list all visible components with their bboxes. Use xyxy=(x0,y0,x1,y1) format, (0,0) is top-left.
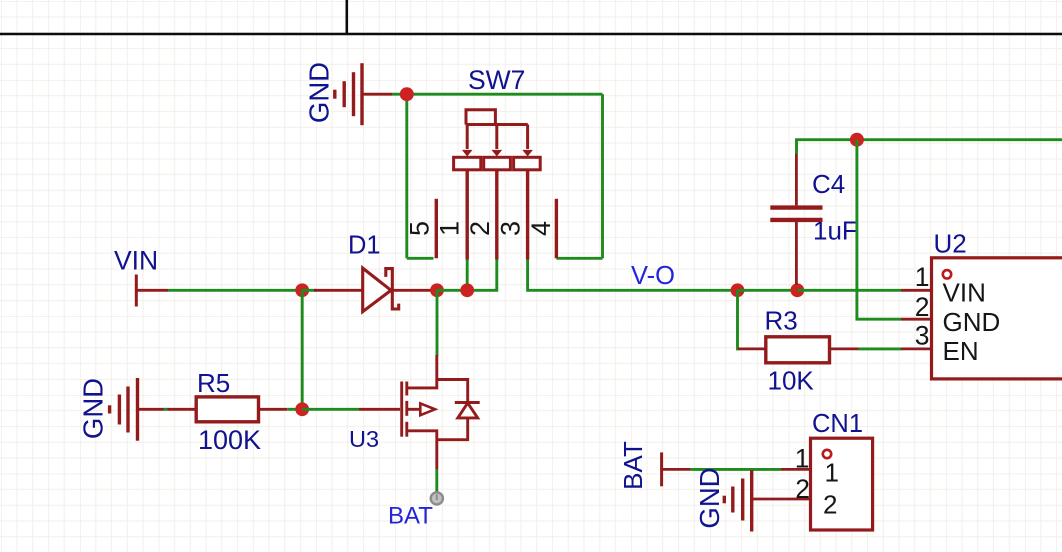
svg-text:2: 2 xyxy=(795,474,810,504)
U3 gate lead xyxy=(359,408,400,411)
svg-text:2: 2 xyxy=(823,490,837,520)
svg-text:VIN: VIN xyxy=(114,246,158,276)
wire GND junction to SW7 top right xyxy=(392,93,603,96)
SW7 pin 3 lead xyxy=(526,170,529,260)
wire SW7 pin3 to V-O run xyxy=(528,260,738,291)
R5 label xyxy=(197,368,230,398)
BAT port pin xyxy=(662,452,691,486)
R3 body xyxy=(766,337,830,363)
GND label (left) xyxy=(78,378,109,439)
ground GND (top, net GND) xyxy=(304,62,393,125)
svg-text:R5: R5 xyxy=(197,368,230,398)
svg-text:GND: GND xyxy=(304,62,335,123)
U3 body diode cathode bar xyxy=(455,401,480,404)
wire to SW7 pin 4 xyxy=(556,257,602,260)
diode D1 (Schottky) xyxy=(314,232,433,312)
svg-text:D1: D1 xyxy=(348,232,381,260)
U2 pin number 1 xyxy=(915,262,930,292)
wire SW7 right side down xyxy=(601,94,604,258)
svg-text:2: 2 xyxy=(465,221,495,236)
U3 source connection xyxy=(408,431,437,469)
D1 schottky cathode bar xyxy=(386,269,399,309)
U2 body xyxy=(932,258,1062,379)
junction R3 node xyxy=(731,283,745,297)
wire R3 node to C4 node xyxy=(738,289,798,292)
SW7 pin number 2 xyxy=(465,221,495,236)
net label V-O xyxy=(631,262,675,290)
U2 pin 3 lead xyxy=(901,347,932,350)
U2 pin number 2 xyxy=(915,292,930,322)
CN1 pin 2 lead xyxy=(752,498,811,501)
svg-text:4: 4 xyxy=(526,221,556,236)
U3 gate bar xyxy=(400,382,403,437)
wire C4 node to U2 VIN xyxy=(797,289,901,292)
svg-text:1: 1 xyxy=(435,221,465,236)
U3 drain connection xyxy=(408,355,437,388)
D1 anode lead xyxy=(314,289,362,292)
wire GND to R5 xyxy=(164,408,169,411)
C4 top plate xyxy=(770,205,822,209)
wire R3 to U2 EN xyxy=(859,347,902,350)
resistor R5 xyxy=(168,368,288,455)
wire top rail down to U2 GND xyxy=(857,140,901,320)
svg-text:BAT: BAT xyxy=(388,503,433,530)
junction R5 / U3 gate node xyxy=(295,402,309,416)
svg-text:V-O: V-O xyxy=(631,262,675,290)
CN1 label xyxy=(812,410,863,438)
VIN label xyxy=(114,246,158,276)
CN1 pin name 2 xyxy=(823,490,837,520)
R5 right lead xyxy=(259,408,288,411)
VIN port pin xyxy=(136,275,168,307)
svg-text:SW7: SW7 xyxy=(468,65,525,95)
SW7 pin number 4 xyxy=(526,221,556,236)
wire VIN to junction xyxy=(168,289,302,292)
R3 value 10K xyxy=(768,365,815,395)
U3 body arrow xyxy=(408,403,435,415)
junction C4 node xyxy=(790,283,804,297)
U2 pin 1 indicator xyxy=(943,270,951,278)
U2 pin number 3 xyxy=(915,321,930,351)
svg-text:5: 5 xyxy=(404,221,434,236)
GND label (top) xyxy=(304,62,335,123)
GND label (bottom) xyxy=(694,467,725,528)
svg-text:VIN: VIN xyxy=(943,278,986,308)
wire GND junction down left of SW7 xyxy=(405,94,408,258)
CN1 pin name 1 xyxy=(825,458,839,488)
svg-text:U2: U2 xyxy=(934,229,967,259)
SW7 pin 4 lead xyxy=(555,199,558,258)
U2 label xyxy=(934,229,967,259)
wire VIN node down to R5 node xyxy=(301,290,304,409)
svg-text:CN1: CN1 xyxy=(812,410,863,438)
SW7 contact box 2 xyxy=(484,157,511,170)
svg-text:100K: 100K xyxy=(198,425,261,455)
SW7 contact box 3 xyxy=(514,157,541,170)
wire SW7 pin1 down to node xyxy=(466,260,469,291)
svg-text:U3: U3 xyxy=(349,426,379,452)
wire junction to SW7 pin1 node and pin 2 xyxy=(437,260,497,291)
ground symbol bars (left) xyxy=(110,378,165,441)
junction D1 cathode / U3 drain xyxy=(430,283,444,297)
port VIN xyxy=(114,246,168,307)
U2 pin 1 lead xyxy=(901,289,932,292)
capacitor C4 xyxy=(770,153,858,285)
D1 triangle xyxy=(363,268,391,312)
svg-text:C4: C4 xyxy=(812,169,845,199)
C4 top lead xyxy=(795,153,798,205)
svg-text:3: 3 xyxy=(496,221,526,236)
C4 value 1uF xyxy=(813,215,858,245)
net label BAT xyxy=(388,503,433,530)
SW7 pin 5 lead xyxy=(435,199,438,258)
CN1 body xyxy=(811,438,873,530)
junction SW7 pin 1 node xyxy=(460,283,474,297)
resistor R3 xyxy=(738,290,859,395)
wire BAT to CN1 pin 1 xyxy=(690,468,781,471)
SW7 pin number 1 xyxy=(435,221,465,236)
port BAT (left of CN1) xyxy=(618,441,690,490)
U2 pin name VIN xyxy=(943,278,986,308)
svg-text:1: 1 xyxy=(915,262,930,292)
SW7 contact box 1 xyxy=(454,157,481,170)
D1 cathode lead xyxy=(392,289,433,292)
R5 body xyxy=(196,397,258,422)
U2 pin 2 lead xyxy=(901,318,932,321)
svg-text:GND: GND xyxy=(694,467,725,528)
IC U2 xyxy=(901,229,1062,379)
ground GND (bottom, at CN1) xyxy=(694,467,752,531)
svg-text:GND: GND xyxy=(78,378,109,439)
R5 value 100K xyxy=(198,425,261,455)
U2 pin name EN xyxy=(943,336,979,366)
C4 label xyxy=(812,169,845,199)
ground GND (left, at R5) xyxy=(78,378,165,441)
CN1 pin 1 indicator xyxy=(823,450,831,458)
junction VIN node xyxy=(295,283,309,297)
pin BAT (test point) xyxy=(431,492,443,504)
svg-text:10K: 10K xyxy=(768,365,815,395)
SW7 pin 2 lead xyxy=(495,170,498,260)
R3 left lead xyxy=(738,347,766,350)
U2 pin name GND xyxy=(943,307,1001,337)
R3 right lead xyxy=(830,347,859,350)
SW7 pin 1 lead xyxy=(466,170,469,260)
svg-text:EN: EN xyxy=(943,336,979,366)
CN1 pin number 1 (outside) xyxy=(795,444,810,474)
ground symbol bars (top) xyxy=(335,63,392,125)
wire R5 to gate node xyxy=(287,408,302,411)
svg-text:1: 1 xyxy=(795,444,810,474)
wire node down to U3 drain xyxy=(436,290,439,356)
wire VIN node to D1 anode xyxy=(302,289,316,292)
svg-text:R3: R3 xyxy=(765,305,798,335)
R5 left lead xyxy=(168,408,197,411)
SW7 label xyxy=(468,65,525,95)
ground symbol bars (bottom) xyxy=(724,470,751,531)
C4 bottom lead xyxy=(795,222,798,285)
R3 label xyxy=(765,305,798,335)
CN1 pin 1 lead xyxy=(781,468,811,471)
SW7 pin number 5 xyxy=(404,221,434,236)
wire R3 node down xyxy=(738,290,740,349)
CN1 pin number 2 (outside) xyxy=(795,474,810,504)
wire gate node to U3 xyxy=(302,408,359,411)
BAT label (rotated) xyxy=(618,441,648,490)
SW7 pin number 3 xyxy=(496,221,526,236)
switch SW7 xyxy=(404,65,556,260)
svg-text:GND: GND xyxy=(943,307,1001,337)
U3 body diode branch top xyxy=(437,380,468,403)
U3 body diode triangle xyxy=(458,403,478,418)
junction at GND / SW7 xyxy=(400,87,414,101)
D1 label xyxy=(348,232,381,260)
transistor U3 (MOSFET with body diode) xyxy=(349,355,480,469)
connector CN1 xyxy=(752,410,873,530)
U3 body diode branch bottom xyxy=(437,418,468,440)
svg-text:1: 1 xyxy=(825,458,839,488)
SW7 actuator bracket xyxy=(462,110,533,157)
wire to SW7 pin 5 xyxy=(407,257,434,260)
U3 channel dashes xyxy=(405,382,408,437)
wire C4 up to top rail xyxy=(797,140,1062,154)
C4 bottom plate xyxy=(770,218,822,222)
sheet frame top edge xyxy=(0,0,1062,34)
U3 label xyxy=(349,426,379,452)
junction top rail xyxy=(850,133,864,147)
svg-text:3: 3 xyxy=(915,321,930,351)
wire U3 source to BAT pin xyxy=(435,469,438,493)
svg-text:BAT: BAT xyxy=(618,441,648,490)
svg-text:2: 2 xyxy=(915,292,930,322)
